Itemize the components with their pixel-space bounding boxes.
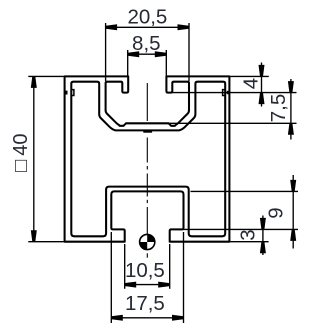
svg-text:3: 3 [237,229,260,240]
dim 4/7,5 shared extension at lip bottom [166,92,296,94]
10,5 arrows (inside) [125,282,137,288]
profile inner hollow boundary (walls of body + underside of top slot + bottom pockets + screw-channel outer wall) [71,82,225,237]
dim 20,5 extension lines [105,23,107,81]
dim 8,5 extension lines [127,50,129,76]
vertex dots on left/right walls at lip-bottom level [65,90,230,133]
8,5 arrows (inside) [128,51,140,57]
svg-text:17,5: 17,5 [125,292,165,315]
dim 17,5 extension lines [110,232,112,323]
dim 7,5 line [290,79,292,140]
dim 9/3 shared extension at ledge [171,228,299,230]
dimension texts [10,6,290,316]
20,5 arrows (inside) [106,24,118,30]
svg-text:8,5: 8,5 [132,32,161,55]
9 arrows (outside) [290,180,296,192]
dim 10,5 extension lines [124,244,126,289]
dim 3 line [262,216,264,256]
dim 17,5 line [111,317,183,319]
square40 arrows (inside) [31,76,37,88]
dim 7,5 extension at slot floor [169,122,297,124]
dim 10,5 line [125,284,170,286]
profile outer boundary (top face, lips, T-slot channel, sides, bottom face, screw channel) [65,76,230,241]
dim 20,5 line [106,26,189,28]
svg-text:□ 40: □ 40 [10,134,32,172]
svg-text:20,5: 20,5 [127,6,167,29]
7,5 arrows (outside) [288,81,294,93]
vertical centerline (dash-dot) [146,83,148,258]
dim square40 line [33,76,35,241]
3 arrows (outside) [260,218,266,230]
ball symbol at bottom center (circle with filled TR and BL quadrants) [140,234,155,249]
dim 8,5 line [128,53,167,55]
dim 9 extension at channel ceiling [191,190,299,192]
dim 9 line [292,175,294,249]
4 arrows (outside) [259,65,265,77]
17,5 arrows (inside) [111,315,123,321]
dim 3 extension (bottom edge extended right) [230,241,268,243]
svg-text:9: 9 [265,207,288,218]
arrowheads [31,24,296,321]
svg-text:10,5: 10,5 [125,259,165,282]
dim 4 line [261,63,263,107]
dim 4 extension (top edge extended right) [230,75,269,77]
dim square40 extension lines (top & bottom edges extended left) [28,75,64,77]
svg-text:4: 4 [240,78,263,89]
svg-text:7,5: 7,5 [267,94,290,123]
